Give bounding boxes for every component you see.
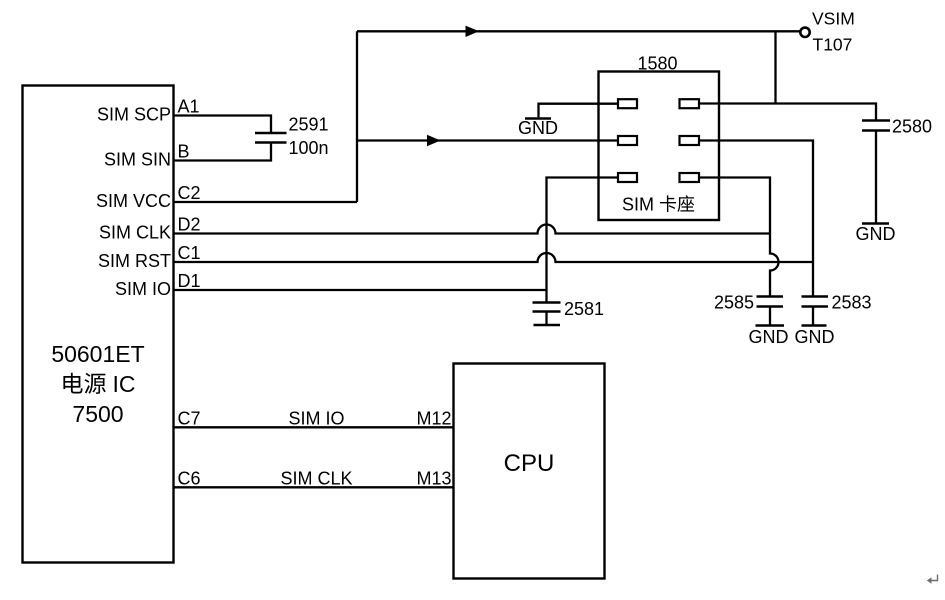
svg-text:2585: 2585 — [714, 293, 754, 313]
wire VSIM vertical drop — [774, 31, 776, 103]
svg-text:CPU: CPU — [504, 450, 555, 477]
capacitor C2583 plates — [802, 297, 829, 307]
svg-text:GND: GND — [856, 224, 896, 244]
svg-text:SIM SIN: SIM SIN — [104, 150, 171, 170]
wire SIM IO (D1) — [174, 289, 547, 291]
svg-text:D1: D1 — [178, 271, 201, 291]
svg-text:SIM CLK: SIM CLK — [99, 223, 171, 243]
svg-text:SIM IO: SIM IO — [288, 409, 344, 429]
CPU box — [454, 364, 605, 579]
svg-text:GND: GND — [518, 118, 558, 138]
svg-text:2583: 2583 — [832, 293, 872, 313]
svg-text:GND: GND — [749, 327, 789, 347]
wire socket IO pin to riser and C2581 — [547, 178, 619, 303]
wire SIM SIN (B) to C2591 — [174, 143, 272, 161]
wire VCC vertical riser — [356, 31, 358, 202]
svg-text:SIM IO: SIM IO — [115, 279, 171, 299]
svg-text:50601ET: 50601ET — [51, 341, 144, 367]
svg-text:A1: A1 — [178, 97, 200, 117]
wire VCC branch to SIM socket VCC pin — [357, 139, 618, 141]
svg-text:SIM VCC: SIM VCC — [96, 191, 171, 211]
wire SIM VCC (C2) horizontal — [174, 201, 358, 203]
ground bar (C2585) — [756, 324, 785, 327]
svg-text:M12: M12 — [416, 409, 451, 429]
power IC title text — [51, 341, 144, 427]
return mark glyph (document artifact) — [932, 575, 938, 581]
svg-text:2581: 2581 — [564, 299, 604, 319]
svg-text:B: B — [178, 142, 190, 162]
svg-text:C2: C2 — [178, 183, 201, 203]
capacitor C2580 plates — [862, 121, 890, 131]
svg-text:C7: C7 — [178, 408, 201, 428]
capacitor C2585 plates — [757, 297, 784, 307]
svg-text:D2: D2 — [178, 215, 201, 235]
svg-text:1580: 1580 — [637, 54, 677, 74]
wire C2583 to ground — [812, 307, 814, 325]
SIM socket right pin 5 (RST contact) — [680, 136, 700, 145]
SIM socket name SIM 卡座 — [622, 195, 694, 215]
SIM socket right pin 4 (VSIM contact) — [680, 99, 700, 108]
wire socket CLK pin riser with hop over SIM RST — [699, 178, 779, 297]
svg-text:T107: T107 — [813, 35, 853, 55]
svg-text:IC: IC — [113, 371, 136, 397]
svg-text:7500: 7500 — [72, 401, 123, 427]
svg-text:100n: 100n — [289, 138, 329, 158]
wire SIM SCP (A1) to C2591 — [174, 116, 272, 134]
capacitor C2581 plates — [533, 303, 561, 312]
SIM socket left pin 1 (GND contact) — [618, 99, 637, 108]
wire C2585 to ground — [769, 307, 771, 325]
ground bar (C2581) — [534, 324, 561, 327]
svg-text:M13: M13 — [416, 469, 451, 489]
svg-text:2580: 2580 — [892, 117, 932, 137]
svg-text:C1: C1 — [178, 243, 201, 263]
wire C6 to M13 (SIM CLK) — [174, 486, 454, 488]
ground bar (C2580) — [862, 222, 889, 225]
arrow on VSIM wire — [466, 26, 480, 37]
ground bar (socket GND) — [525, 117, 551, 120]
svg-text:VSIM: VSIM — [812, 9, 855, 29]
ground bar (C2583) — [802, 324, 827, 327]
svg-text:C6: C6 — [178, 468, 201, 488]
svg-text:SIM RST: SIM RST — [98, 251, 171, 271]
svg-text:SIM SCP: SIM SCP — [97, 105, 171, 125]
svg-text:GND: GND — [795, 327, 835, 347]
power IC U7500 box (50601ET) — [23, 86, 174, 563]
svg-text:SIM CLK: SIM CLK — [280, 469, 352, 489]
wire VCC top run to VSIM node — [357, 30, 800, 32]
SIM socket right pin 6 (CLK contact) — [680, 173, 700, 182]
wire socket pin1 to GND — [539, 104, 619, 118]
wire C2581 to ground bar — [545, 312, 547, 325]
wire C7 to M12 (SIM IO) — [174, 426, 454, 428]
SIM socket left pin 2 (VCC contact) — [618, 136, 637, 145]
wire socket RST pin riser to C2583 — [699, 141, 813, 297]
capacitor C2591 plates — [255, 133, 287, 143]
wire SIM RST (C1) with hop over SIM IO riser — [174, 253, 814, 262]
wire C2580 to ground — [875, 131, 877, 223]
svg-text:SIM: SIM — [622, 195, 654, 215]
arrow on VCC branch wire — [427, 135, 441, 146]
wire socket VSIM pin to C2580 — [699, 104, 876, 121]
wire SIM CLK (D2) with hop over SIM IO riser — [174, 225, 771, 234]
SIM socket J1580 box — [599, 72, 720, 221]
node VSIM terminal circle T107 — [800, 28, 809, 37]
svg-text:2591: 2591 — [289, 115, 329, 135]
SIM socket left pin 3 (IO contact) — [618, 173, 637, 182]
